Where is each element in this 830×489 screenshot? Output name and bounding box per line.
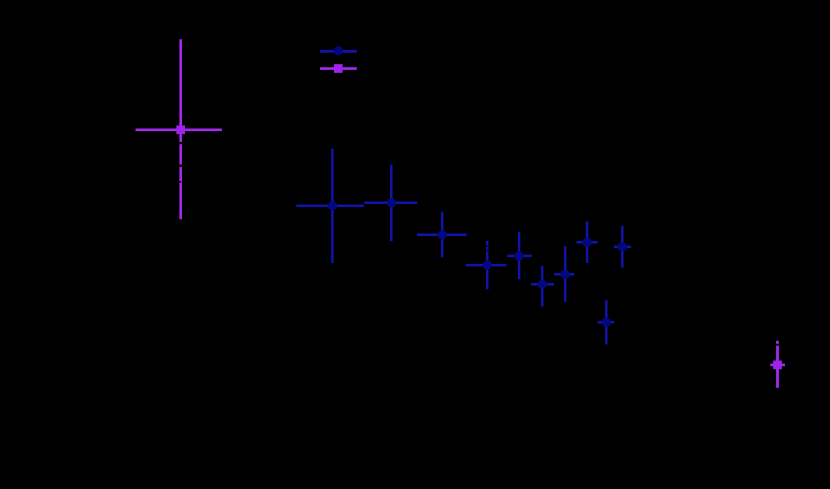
magenta data point P1 horizontal error bar xyxy=(136,129,222,132)
blue data point I error bars xyxy=(614,226,631,268)
legend entry 1: blue circle marker xyxy=(334,46,343,55)
blue data point E error bars xyxy=(507,232,532,279)
blue data point J circle marker xyxy=(602,318,611,327)
magenta data point P2 square marker xyxy=(773,361,782,370)
magenta data point P2 horizontal error bar xyxy=(770,364,785,367)
blue data point G error bars xyxy=(554,246,574,302)
magenta P2 notch cut xyxy=(776,344,779,346)
legend entry 2: magenta square marker xyxy=(334,64,343,73)
magenta data point P1 vertical error bar xyxy=(179,39,182,219)
blue data point E circle marker xyxy=(514,251,523,260)
blue data point H error bars xyxy=(576,222,597,264)
magenta P1 notch cuts xyxy=(179,142,182,183)
blue data point F circle marker xyxy=(538,280,547,289)
blue data point C circle marker xyxy=(438,230,447,239)
blue data point H circle marker xyxy=(582,238,591,247)
blue data point A error bars xyxy=(296,149,363,263)
magenta data point P2 vertical error bar xyxy=(776,341,779,388)
blue data point I circle marker xyxy=(618,242,627,251)
legend entry 2: magenta graph line xyxy=(320,67,357,70)
legend entry 1: blue graph line xyxy=(320,50,357,53)
blue data point D error bars xyxy=(466,241,507,289)
blue data point F error bars xyxy=(531,266,554,307)
blue data point J error bars xyxy=(598,300,615,344)
magenta data point P1 square marker xyxy=(176,125,185,134)
blue data point C error bars xyxy=(417,212,467,257)
blue data point D circle marker xyxy=(483,260,492,269)
blue data point A circle marker xyxy=(328,201,337,210)
blue point D notch cuts xyxy=(486,246,489,252)
blue data point B circle marker xyxy=(387,198,396,207)
blue data point G circle marker xyxy=(561,270,570,279)
blue data point B error bars xyxy=(365,165,418,242)
